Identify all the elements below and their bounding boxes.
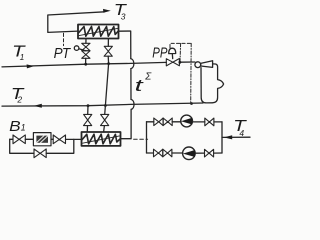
pump branch bottom wire xyxy=(147,152,223,154)
cold water inlet line B1 xyxy=(10,138,82,140)
control valve PT (double bowtie, vertical) xyxy=(82,43,90,50)
valve (bowtie) on bypass xyxy=(34,149,46,158)
wire T4 circulation inlet xyxy=(222,136,250,138)
valve pair (two bowties) top branch xyxy=(154,118,163,126)
node junction dot T2 left branch xyxy=(87,104,90,107)
dashed tie line W2 outlet to pump header xyxy=(134,138,148,140)
heat exchanger W1 (upper stage, shell) xyxy=(78,25,119,39)
valve (bowtie) after meter xyxy=(53,135,65,144)
valve (bowtie) bottom branch outlet xyxy=(205,149,214,157)
svg-text:РТ: РТ xyxy=(54,46,72,62)
valve pair (two bowties) bottom branch xyxy=(154,149,163,157)
node junction dot impulse/T1 xyxy=(179,61,182,64)
actuator head of valve PT xyxy=(74,46,79,51)
svg-text:t: t xyxy=(135,76,145,95)
pump N2 (circle with flow wedge) xyxy=(183,147,196,160)
wire hop over T1 xyxy=(131,59,134,69)
wire vertical between hops xyxy=(130,69,132,100)
node T3 arrow xyxy=(103,9,111,13)
node T4 arrow xyxy=(224,135,232,139)
node T1 arrow xyxy=(27,64,35,68)
actuator stem PT xyxy=(79,49,86,51)
heat exchanger W2 (lower stage, shell) xyxy=(82,132,121,146)
valve (bowtie, vertical) on W2 left branch xyxy=(84,114,92,125)
valve PP (bowtie) on T1 xyxy=(166,59,179,66)
wire T1 after PP valve to elevator xyxy=(179,61,195,63)
svg-text:Σ: Σ xyxy=(144,72,152,83)
wire T3 outlet loop (top) xyxy=(48,12,105,33)
water meter inner element xyxy=(36,136,48,143)
wire W1 left branch to T1 xyxy=(85,39,87,65)
node junction dot T1/right branch xyxy=(107,62,110,65)
node junction dot T2 right branch xyxy=(104,104,107,107)
heating system loop xyxy=(201,64,224,103)
heat exchanger W1 shell diagonal xyxy=(79,28,118,35)
svg-text:1: 1 xyxy=(21,123,26,133)
actuator stem PP xyxy=(171,54,173,59)
wire W1 right branch through T1 to T2 xyxy=(105,39,108,106)
valve (bowtie) B1 inlet xyxy=(13,135,25,144)
dashed impulse frame PP xyxy=(170,43,191,47)
wire hop over T2 xyxy=(131,99,134,109)
pump branch top wire xyxy=(147,121,223,123)
dashed impulse line PP to T1 xyxy=(179,43,182,62)
svg-text:2: 2 xyxy=(16,95,22,105)
heat exchanger W2 coil zigzag xyxy=(82,134,120,144)
svg-text:В: В xyxy=(9,118,20,135)
actuator head of valve PP xyxy=(169,48,176,53)
svg-text:4: 4 xyxy=(239,128,244,138)
pump group left header xyxy=(146,122,148,153)
heat exchanger W1 coil zigzag xyxy=(78,27,118,37)
dashed impulse line PP to T2 xyxy=(190,43,193,103)
elevator mixing unit: nozzle circle xyxy=(195,62,201,68)
dashed impulse line PT sensor xyxy=(63,33,65,45)
pump N1 (circle with flow wedge) xyxy=(181,115,193,127)
wire down to W2 right inlet xyxy=(121,109,132,138)
bypass line around meter xyxy=(10,139,74,153)
wire T2 to W2 right branch xyxy=(104,106,106,133)
node T2 arrow xyxy=(34,104,42,108)
node junction dot impulse/T2 xyxy=(190,102,193,105)
heat exchanger W2 shell diagonal xyxy=(83,136,120,143)
wire T2 to W2 left branch xyxy=(86,106,89,132)
svg-text:3: 3 xyxy=(121,11,126,21)
main T1 supply line xyxy=(2,62,166,67)
svg-text:РР: РР xyxy=(152,45,167,62)
elevator cone xyxy=(201,61,213,68)
pump group right header xyxy=(221,122,223,153)
water meter box xyxy=(33,133,51,146)
svg-text:1: 1 xyxy=(20,52,25,62)
wire W1 outlet to lower exchanger (with line hops) xyxy=(119,31,131,59)
main T2 return line xyxy=(2,103,203,106)
valve (bowtie, vertical) on W2 right branch xyxy=(101,114,109,125)
valve (bowtie) top branch outlet xyxy=(205,118,214,126)
valve V (bowtie, vertical) on W1 right branch xyxy=(104,46,112,56)
node junction dot T1/PT branch xyxy=(84,63,87,66)
